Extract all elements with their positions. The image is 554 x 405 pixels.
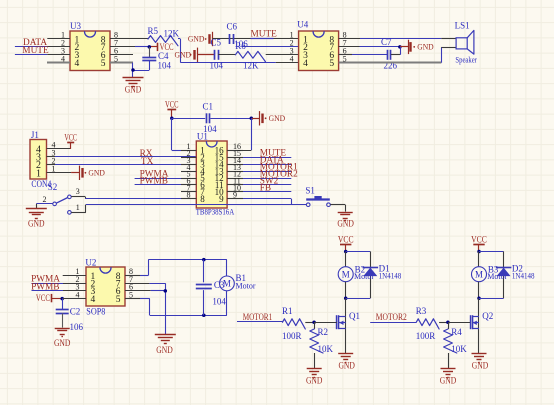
svg-text:GND: GND [306,377,323,387]
svg-text:VCC: VCC [64,133,77,144]
svg-text:4: 4 [91,295,96,305]
svg-text:106: 106 [70,322,84,332]
svg-text:PWMB: PWMB [31,282,59,292]
svg-text:SOP8: SOP8 [86,307,105,317]
svg-text:M: M [223,279,231,289]
svg-text:C7: C7 [381,37,392,47]
svg-text:104: 104 [210,60,224,70]
svg-text:R5: R5 [148,26,159,36]
svg-text:C2: C2 [70,306,81,316]
svg-text:M: M [475,269,483,279]
svg-text:J1: J1 [31,130,39,140]
svg-text:S1: S1 [305,185,315,195]
svg-text:TX: TX [141,157,154,167]
svg-text:12K: 12K [243,60,259,70]
svg-text:GND: GND [125,86,142,96]
svg-text:U4: U4 [297,20,308,30]
svg-text:2: 2 [43,195,47,204]
svg-text:5: 5 [116,295,121,305]
svg-text:4: 4 [290,54,294,63]
svg-text:4: 4 [76,290,80,299]
svg-text:1: 1 [36,168,41,179]
svg-text:GND: GND [338,361,355,371]
svg-text:5: 5 [129,290,133,299]
svg-text:GND: GND [54,339,71,349]
svg-text:GND: GND [28,219,45,229]
svg-text:4: 4 [75,59,80,69]
svg-text:C6: C6 [227,22,238,32]
svg-text:U3: U3 [70,21,81,31]
svg-text:100R: 100R [416,331,436,341]
svg-text:C1: C1 [203,102,214,112]
svg-text:9: 9 [219,194,224,204]
svg-text:VCC: VCC [471,235,487,246]
svg-text:1: 1 [76,203,80,212]
svg-text:VCC: VCC [165,100,179,111]
svg-text:R3: R3 [416,306,427,316]
svg-text:GND: GND [188,34,205,44]
svg-text:8: 8 [200,194,205,204]
svg-text:R4: R4 [451,327,462,337]
svg-text:10K: 10K [451,344,467,354]
svg-text:GND: GND [417,42,434,52]
svg-text:4: 4 [303,59,308,69]
svg-text:VCC: VCC [338,235,354,246]
svg-text:U1: U1 [197,132,208,142]
svg-text:Motor: Motor [236,282,256,291]
svg-text:U2: U2 [85,257,96,267]
svg-text:104: 104 [212,296,226,306]
svg-text:Speaker: Speaker [455,55,477,64]
svg-text:TB8P38S16A: TB8P38S16A [196,206,235,216]
svg-text:MOTOR2: MOTOR2 [376,313,407,323]
svg-text:GND: GND [440,377,457,387]
svg-text:R6: R6 [235,41,246,51]
svg-text:LS1: LS1 [455,20,470,30]
svg-text:3: 3 [76,187,80,196]
svg-text:S2: S2 [48,182,58,192]
svg-text:104: 104 [158,60,172,70]
svg-text:MOTOR1: MOTOR1 [243,313,273,323]
svg-text:5: 5 [101,59,106,69]
svg-text:5: 5 [329,59,334,69]
svg-text:VCC: VCC [36,294,50,304]
svg-text:12K: 12K [164,29,180,39]
svg-text:100R: 100R [282,331,302,341]
svg-text:1N4148: 1N4148 [379,271,402,280]
svg-text:R2: R2 [318,327,329,337]
svg-text:C5: C5 [211,38,222,48]
svg-text:PWMB: PWMB [140,176,168,186]
svg-text:Q2: Q2 [482,311,493,321]
svg-text:MUTE: MUTE [251,30,278,40]
svg-text:GND: GND [156,346,173,356]
svg-text:10K: 10K [318,344,334,354]
svg-text:1N4148: 1N4148 [512,271,535,280]
svg-text:FB: FB [260,183,271,193]
svg-text:GND: GND [269,113,286,123]
svg-text:MUTE: MUTE [22,46,49,56]
svg-text:GND: GND [472,361,489,371]
svg-text:Q1: Q1 [349,311,360,321]
svg-text:GND: GND [337,219,354,229]
svg-text:GND: GND [88,168,105,178]
svg-text:M: M [342,269,350,279]
svg-text:GND: GND [175,50,192,60]
svg-text:R1: R1 [282,306,293,316]
